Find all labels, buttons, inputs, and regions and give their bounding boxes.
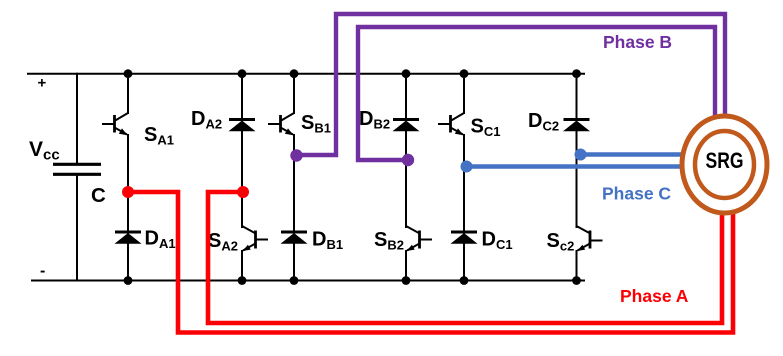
junction top rail leg3: [290, 69, 299, 78]
transistor S_A2: [242, 226, 268, 251]
wire leg2 middle: [241, 131, 243, 229]
junction bottom rail leg2: [238, 276, 247, 285]
wire leg6 middle: [576, 131, 578, 229]
wire phase B outer (leg3 to SRG): [294, 14, 725, 155]
wire leg4 top: [405, 73, 407, 121]
junction top rail leg6: [572, 69, 581, 78]
wire bottom rail: [31, 280, 585, 282]
wire Vcc branch upper: [76, 73, 78, 164]
wire phase A outer (leg1 to SRG): [128, 192, 733, 333]
wire leg6 bottom: [576, 250, 578, 282]
junction bottom rail leg1: [124, 276, 133, 285]
junction bottom rail leg3: [290, 276, 299, 285]
svg-text:-: -: [40, 263, 45, 280]
wire leg5 collector: [463, 73, 465, 114]
wire leg5 middle: [463, 134, 465, 232]
node phase B tap leg4: [402, 154, 414, 166]
wire top rail: [27, 73, 585, 75]
diode D_A2: [229, 120, 256, 132]
node phase A tap leg2: [237, 186, 249, 198]
wire phase C upper (leg6 to SRG): [577, 152, 685, 157]
wire phase A inner (leg2 to SRG): [208, 192, 722, 323]
diode D_C2: [563, 120, 590, 132]
diode D_B2: [393, 120, 420, 132]
svg-text:+: +: [38, 75, 47, 92]
transistor S_C1: [438, 113, 464, 135]
transistor S_B1: [268, 113, 294, 135]
transistor S_c2: [577, 226, 603, 251]
wire leg3 middle: [293, 134, 295, 232]
capacitor C: [53, 164, 101, 174]
SRG machine outer ring: [682, 116, 767, 213]
wire leg5 bottom: [463, 243, 465, 282]
diode D_B1: [281, 232, 308, 244]
junction bottom rail leg4: [402, 276, 411, 285]
wire leg3 collector: [293, 73, 295, 114]
diode D_A1: [115, 232, 142, 244]
transistor S_B2: [406, 226, 432, 251]
node phase C tap leg6: [575, 149, 587, 161]
transistor S_A1: [102, 113, 128, 135]
junction top rail leg4: [402, 69, 411, 78]
junction bottom rail leg6: [572, 276, 581, 285]
junction top rail leg5: [460, 69, 469, 78]
wire leg2 top: [241, 73, 243, 121]
wire leg1 bottom: [127, 243, 129, 282]
wire leg3 bottom: [293, 243, 295, 282]
svg-text:Phase A: Phase A: [620, 286, 689, 306]
wire phase C lower (leg5 to SRG): [464, 164, 684, 169]
wire phase B inner (leg4 to SRG): [358, 27, 715, 160]
SRG machine inner ring: [695, 131, 754, 198]
svg-text:SRG: SRG: [706, 148, 744, 173]
node phase A tap leg1: [122, 186, 134, 198]
diode D_C1: [451, 232, 478, 244]
wire leg6 top: [576, 73, 578, 121]
svg-text:Phase B: Phase B: [603, 32, 672, 52]
wire leg2 bottom: [241, 250, 243, 282]
svg-text:Phase C: Phase C: [602, 184, 671, 204]
junction top rail leg1: [124, 69, 133, 78]
svg-text:C: C: [91, 184, 106, 207]
junction top rail leg2: [238, 69, 247, 78]
wire leg4 middle: [405, 131, 407, 229]
wire leg1 collector: [127, 73, 129, 114]
node phase B tap leg3: [290, 149, 302, 161]
wire Vcc branch lower: [76, 174, 78, 282]
junction bottom rail leg5: [460, 276, 469, 285]
wire leg1 middle: [127, 134, 129, 232]
wire leg4 bottom: [405, 250, 407, 282]
node phase C tap leg5: [461, 161, 473, 173]
